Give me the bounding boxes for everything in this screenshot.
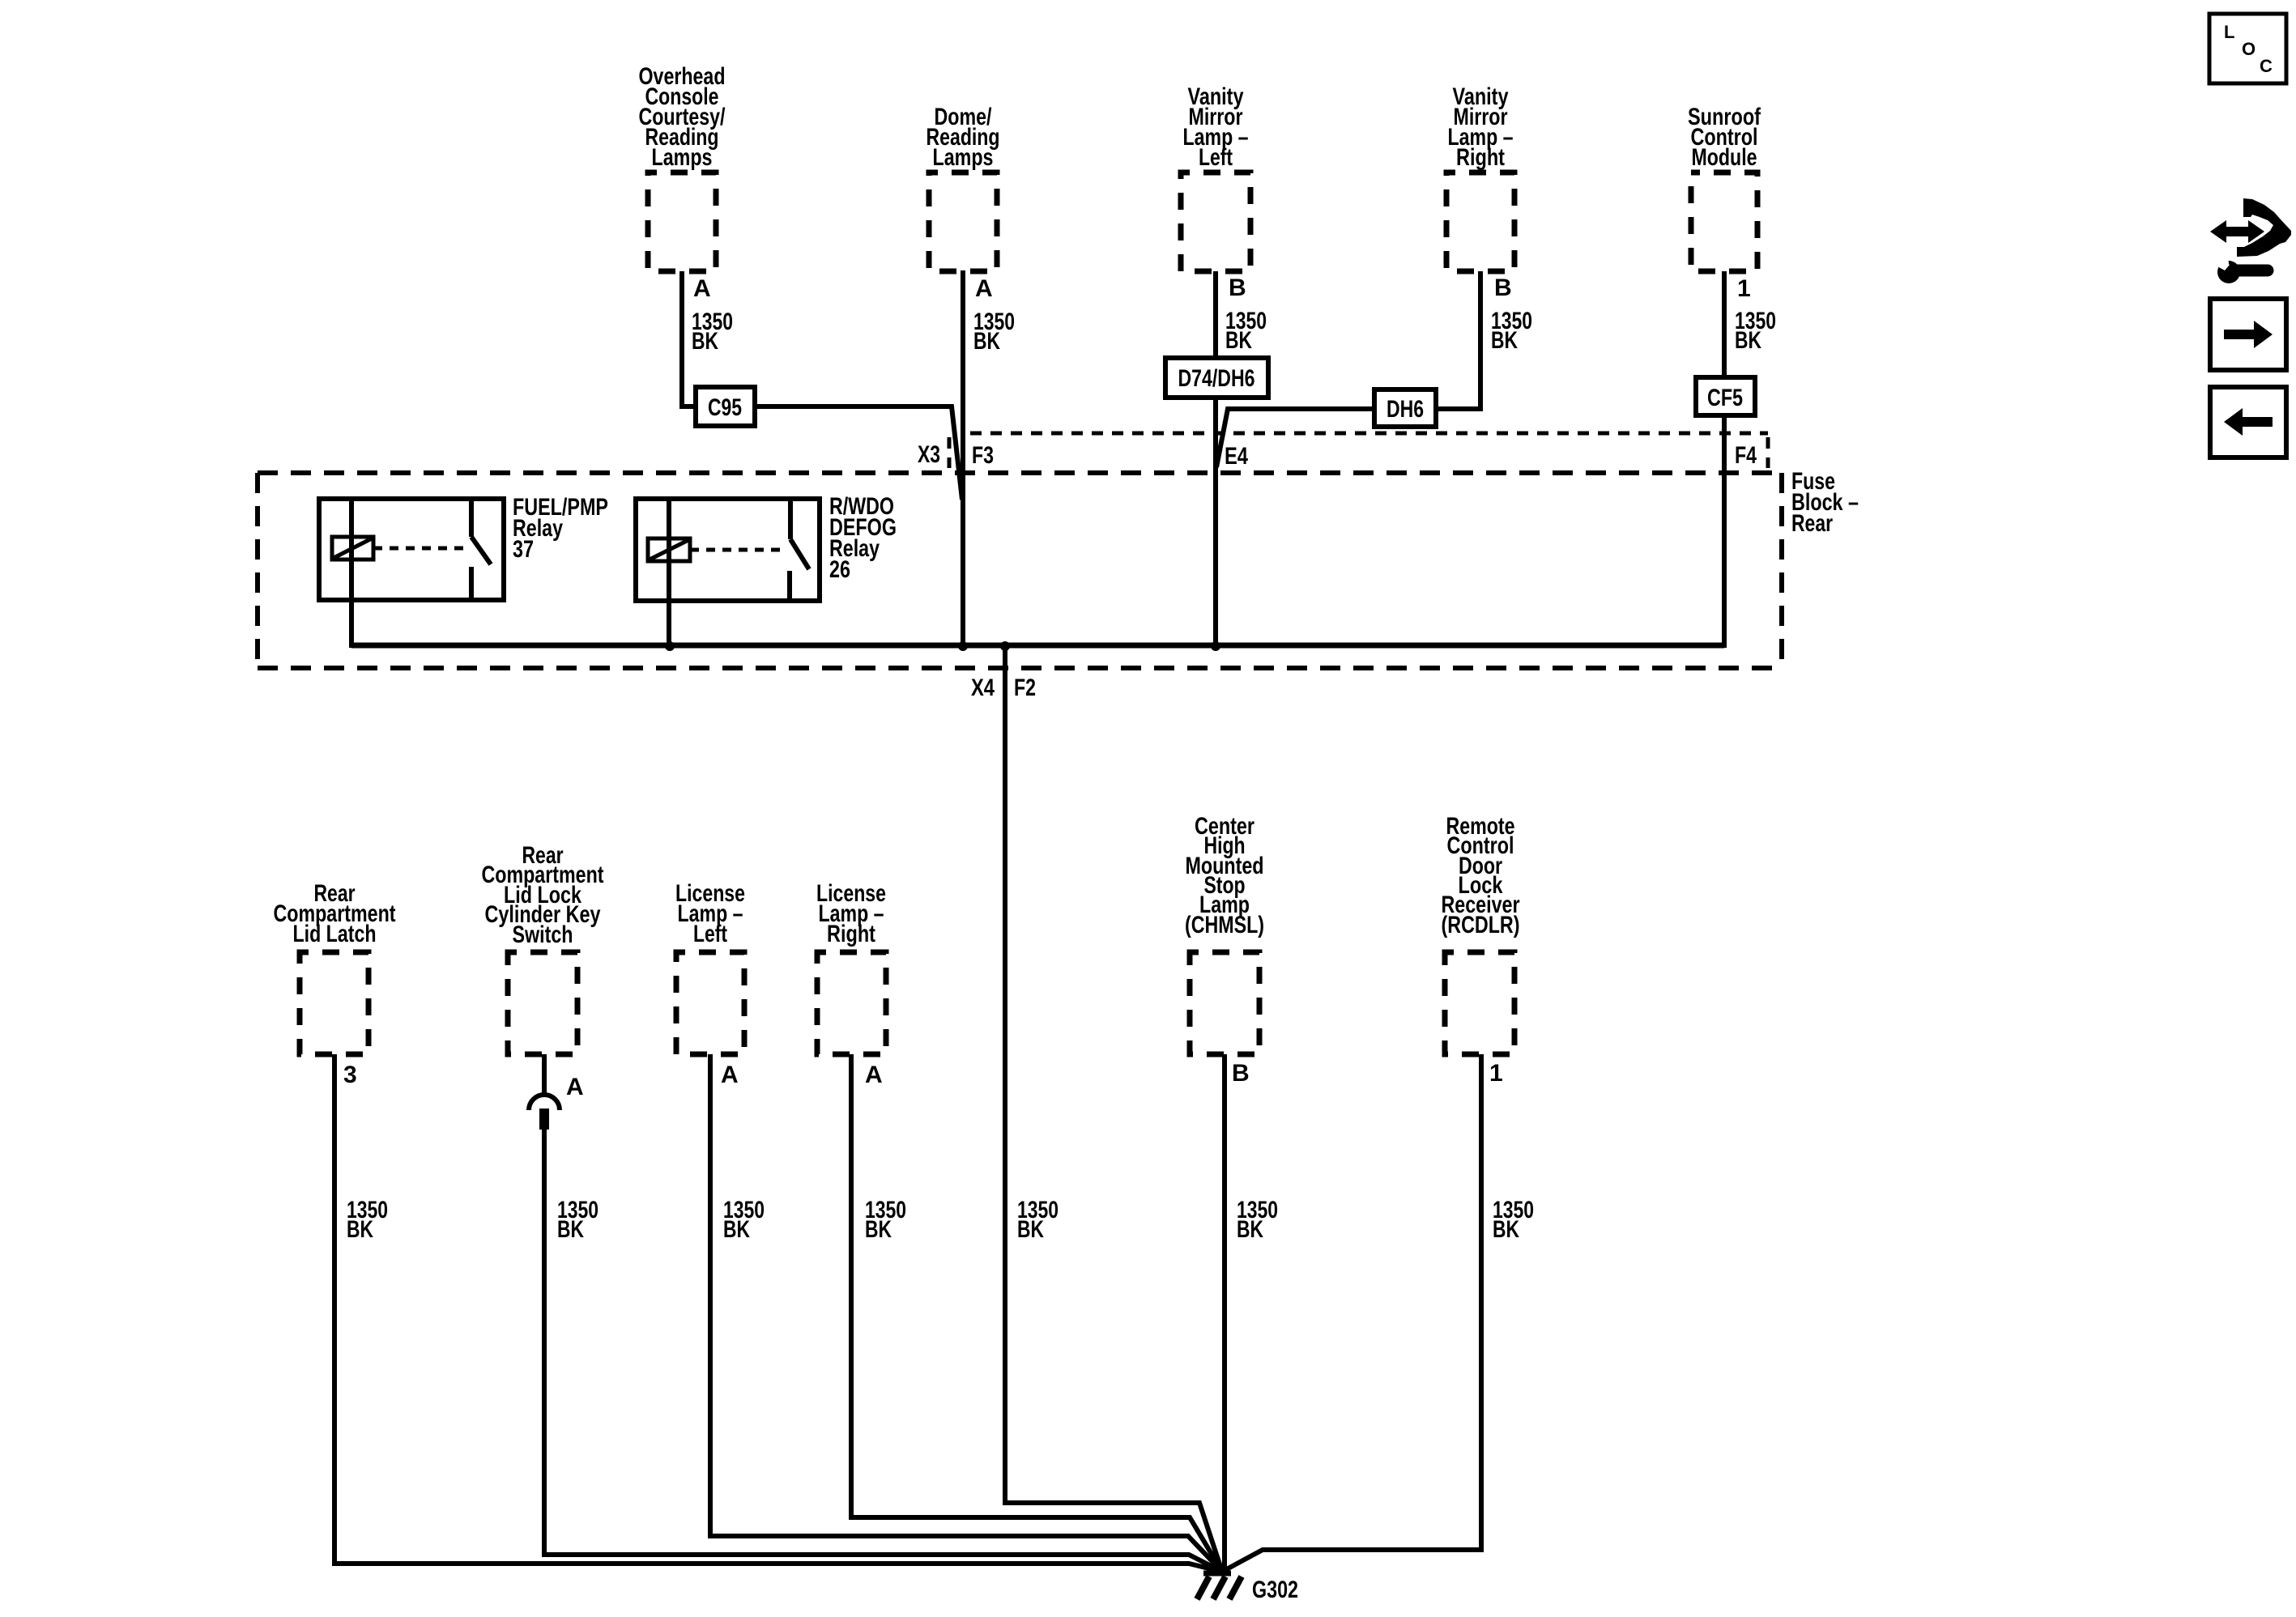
wire: Sunroof Control Module pin 1 through CF5 and F4 to fuse block bus <box>1722 271 1727 648</box>
svg-text:C: C <box>2260 56 2273 76</box>
svg-text:(CHMSL): (CHMSL) <box>1185 912 1264 938</box>
relay 26 coil wire <box>667 499 671 648</box>
svg-text:Lamps: Lamps <box>652 144 713 171</box>
label Overhead Console Courtesy/Reading Lamps <box>639 63 726 171</box>
wire: License Lamp Left to ground G302 <box>710 1054 1222 1572</box>
LOC navigation box <box>2209 14 2286 83</box>
svg-text:BK: BK <box>1491 327 1518 354</box>
back arrow box <box>2210 387 2286 457</box>
connector strip dotted boundary <box>970 432 1768 436</box>
svg-text:BK: BK <box>973 328 1000 355</box>
svg-text:(RCDLR): (RCDLR) <box>1442 912 1520 938</box>
svg-text:Module: Module <box>1692 144 1757 171</box>
svg-text:G302: G302 <box>1252 1577 1298 1603</box>
forward arrow box <box>2210 299 2286 370</box>
svg-text:F4: F4 <box>1735 442 1757 469</box>
svg-text:3: 3 <box>343 1062 357 1088</box>
wire: Vanity Mirror Lamp Right pin B to DH6 splice <box>1216 271 1480 467</box>
relay 37 movable contact blade <box>471 537 491 564</box>
wire: Key Switch to ground G302 <box>544 1130 1222 1572</box>
svg-text:Right: Right <box>1456 144 1505 171</box>
svg-text:BK: BK <box>1017 1216 1044 1243</box>
diagnostic icon double arrow <box>2210 220 2264 243</box>
svg-text:Switch: Switch <box>513 921 573 948</box>
svg-text:L: L <box>2224 22 2234 42</box>
wire label 1350 BK (Key Switch) <box>557 1197 598 1243</box>
diagnostic icon wrench <box>2215 256 2268 283</box>
svg-text:B: B <box>1494 274 1512 301</box>
ground G302 symbol <box>1197 1573 1242 1599</box>
wire: Lid Latch pin 3 to ground G302 <box>334 1054 1222 1572</box>
junction dot E4 wire to bus <box>1211 641 1220 651</box>
svg-text:BK: BK <box>723 1216 750 1243</box>
connector C6 Rear Compartment Lid Latch <box>300 952 368 1054</box>
relay 37 output contact stub <box>469 567 474 600</box>
connector C7 Rear Compartment Lid Lock Cylinder Key Switch <box>508 952 577 1054</box>
Fuse Block Rear outline top edge <box>258 470 1782 475</box>
svg-text:26: 26 <box>829 556 850 583</box>
wire: Dome/Reading Lamps pin A through F3 to fuse block bus <box>961 270 965 648</box>
svg-text:X4: X4 <box>971 674 995 701</box>
svg-text:B: B <box>1229 274 1246 301</box>
label Rear Compartment Lid Lock Cylinder Key Switch <box>482 842 604 948</box>
relay FUEL/PMP Relay 37 outline <box>319 499 504 600</box>
wire label 1350 BK (Vanity Mirror Lamp Right) <box>1491 308 1532 354</box>
junction dot relay 26 coil to bus <box>665 641 675 651</box>
svg-text:Left: Left <box>1199 144 1233 171</box>
svg-text:DH6: DH6 <box>1387 396 1424 423</box>
svg-text:BK: BK <box>347 1216 373 1243</box>
relay 26 movable contact blade <box>790 539 809 569</box>
svg-text:F3: F3 <box>972 442 994 469</box>
wire: fuse block F2 to ground G302 <box>1005 648 1222 1572</box>
label Fuse Block - Rear <box>1791 468 1859 537</box>
label FUEL/PMP Relay 37 <box>513 494 608 563</box>
connector C4 Vanity Mirror Lamp Right <box>1446 172 1514 271</box>
connector C10 Center High Mounted Stop Lamp (CHMSL) <box>1190 952 1259 1054</box>
Fuse Block Rear outline left edge <box>255 473 260 668</box>
connector C3 Vanity Mirror Lamp Left <box>1181 172 1250 271</box>
junction dot F2 drop from bus <box>1000 641 1010 651</box>
svg-text:C95: C95 <box>708 394 742 421</box>
dotted separator at F4 <box>1766 437 1770 468</box>
junction dot F3 wire to bus <box>958 641 968 651</box>
svg-text:1: 1 <box>1737 275 1751 302</box>
svg-text:A: A <box>865 1062 883 1088</box>
wire label 1350 BK (CHMSL) <box>1237 1197 1278 1243</box>
svg-text:BK: BK <box>865 1216 892 1243</box>
relay 37 coil wire <box>349 499 354 648</box>
wire label 1350 BK (RCDLR) <box>1493 1197 1534 1243</box>
wire: License Lamp Right to ground G302 <box>851 1054 1222 1572</box>
connector CF5 <box>1696 377 1755 415</box>
connector C8 License Lamp Left <box>676 952 744 1054</box>
svg-text:E4: E4 <box>1225 443 1248 470</box>
wire label 1350 BK (License Lamp Right) <box>865 1197 906 1243</box>
connector C11 Remote Control Door Lock Receiver (RCDLR) <box>1445 952 1514 1054</box>
key switch contact arc <box>529 1095 560 1110</box>
label Sunroof Control Module <box>1688 104 1761 171</box>
relay 37 coil <box>332 537 373 560</box>
svg-text:D74/DH6: D74/DH6 <box>1178 365 1255 392</box>
svg-text:X3: X3 <box>918 441 940 468</box>
svg-text:Left: Left <box>693 921 727 947</box>
label Dome/Reading Lamps <box>926 104 1000 171</box>
connector C9 License Lamp Right <box>817 952 886 1054</box>
svg-text:A: A <box>721 1062 739 1088</box>
svg-text:BK: BK <box>1493 1216 1519 1243</box>
dotted separator at X3 <box>948 437 952 468</box>
svg-text:A: A <box>693 275 711 302</box>
wire label 1350 BK (Lid Latch) <box>347 1197 388 1243</box>
wire: Vanity Mirror Lamp Left pin B through D74/DH6 and E4 to fuse block bus <box>1213 271 1218 648</box>
svg-text:37: 37 <box>513 536 534 563</box>
Fuse Block Rear outline bottom edge <box>258 666 1782 670</box>
svg-text:F2: F2 <box>1014 674 1036 701</box>
relay R/WDO DEFOG Relay 26 outline <box>636 499 820 601</box>
svg-text:Lid Latch: Lid Latch <box>293 921 377 947</box>
svg-text:BK: BK <box>692 328 718 355</box>
svg-text:A: A <box>975 275 993 302</box>
splice D74/DH6 <box>1165 358 1268 398</box>
label Remote Control Door Lock Receiver (RCDLR) <box>1442 813 1520 938</box>
svg-text:1: 1 <box>1489 1060 1503 1087</box>
relay 26 coil-contact dashed link <box>690 548 782 552</box>
ground bus inside fuse block <box>351 643 1724 649</box>
connector C2 Dome/Reading Lamps <box>929 172 997 271</box>
wire: RCDLR pin 1 to ground G302 <box>1222 1054 1481 1572</box>
label R/WDO DEFOG Relay 26 <box>829 493 897 583</box>
connector C1 Overhead Console Courtesy/Reading Lamps <box>648 172 716 271</box>
svg-text:A: A <box>566 1074 584 1100</box>
svg-text:BK: BK <box>1225 327 1252 354</box>
svg-text:CF5: CF5 <box>1707 385 1743 411</box>
svg-text:B: B <box>1232 1060 1250 1087</box>
svg-text:Right: Right <box>827 921 875 947</box>
wire label 1350 BK (Overhead Console) <box>692 309 733 355</box>
label Rear Compartment Lid Latch <box>274 880 396 947</box>
label Center High Mounted Stop Lamp (CHMSL) <box>1185 813 1264 938</box>
relay 26 fixed contact <box>788 499 793 539</box>
wire label 1350 BK (Vanity Mirror Lamp Left) <box>1225 308 1267 354</box>
svg-text:BK: BK <box>557 1216 584 1243</box>
label License Lamp Right <box>816 880 886 947</box>
wire label 1350 BK (Sunroof Control Module) <box>1735 308 1776 354</box>
svg-text:BK: BK <box>1237 1216 1263 1243</box>
splice DH6 <box>1374 389 1436 427</box>
label Vanity Mirror Lamp Left <box>1183 83 1249 171</box>
relay 26 coil <box>648 538 690 561</box>
svg-text:Lamps: Lamps <box>933 144 994 171</box>
wire label 1350 BK (F2 wire) <box>1017 1197 1059 1243</box>
svg-text:BK: BK <box>1735 327 1761 354</box>
wire: Key Switch pin A upper stub <box>542 1054 547 1095</box>
wire: CHMSL pin B to ground G302 <box>1222 1054 1227 1569</box>
wire label 1350 BK (Dome/Reading Lamps) <box>973 309 1015 355</box>
connector C5 Sunroof Control Module <box>1691 172 1757 271</box>
wire label 1350 BK (License Lamp Left) <box>723 1197 765 1243</box>
label Vanity Mirror Lamp Right <box>1448 83 1514 171</box>
diagnostic icon car outline <box>2237 198 2291 257</box>
svg-text:O: O <box>2242 39 2256 59</box>
relay 26 output contact stub <box>787 571 792 601</box>
svg-text:Rear: Rear <box>1791 510 1833 537</box>
wire: Overhead Console pin A to connector C95 <box>682 271 696 406</box>
key switch contact bar <box>539 1108 549 1130</box>
label License Lamp Left <box>675 880 745 947</box>
relay 37 fixed contact <box>469 499 474 537</box>
relay 37 coil-contact dashed link <box>373 547 468 551</box>
connector C95 <box>696 387 755 426</box>
Fuse Block Rear outline right edge <box>1779 473 1784 668</box>
wire: C95 to fuse block X3 F3 node <box>755 406 962 500</box>
